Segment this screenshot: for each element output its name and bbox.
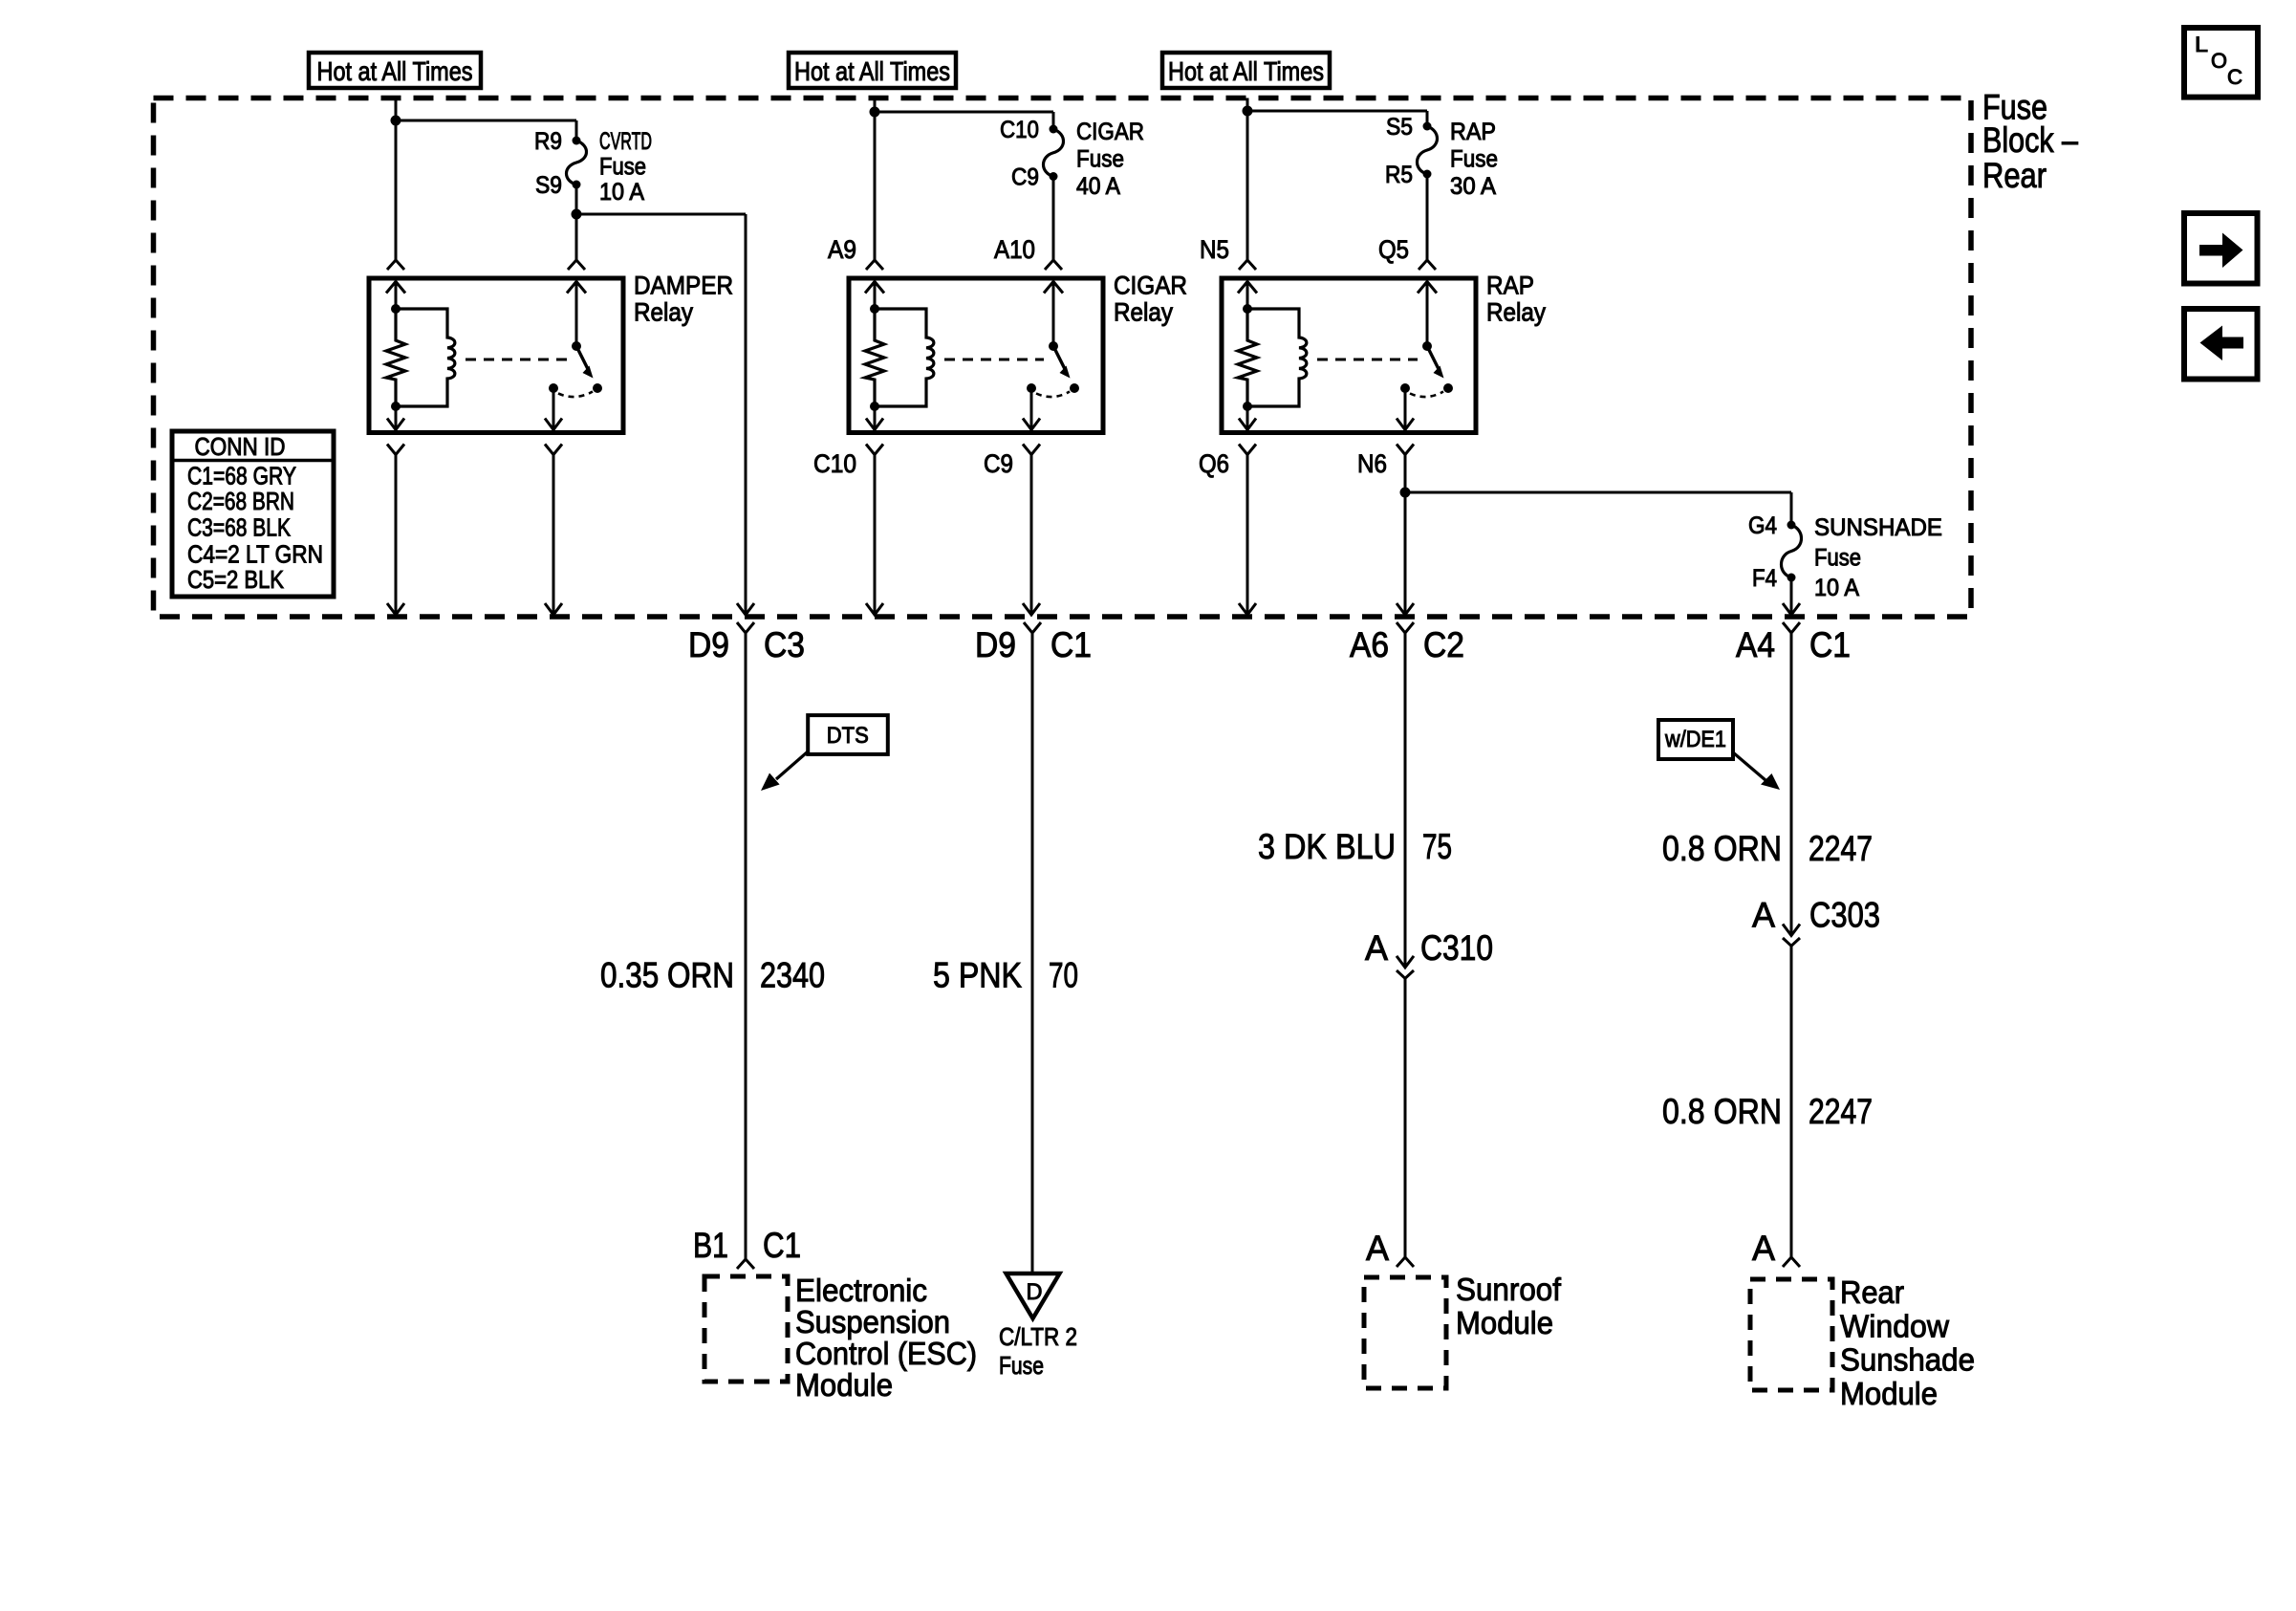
svg-text:DTS: DTS <box>827 723 869 749</box>
CIGAR relay switch travel dashed arc <box>1036 392 1070 398</box>
arrow: CIGAR switch output crosses border <box>1023 603 1040 615</box>
svg-text:70: 70 <box>1049 956 1078 995</box>
RAP relay switch pivot dot <box>1422 341 1432 351</box>
arrow: RAP coil output ends at border <box>1239 603 1256 615</box>
DAMPER relay coil winding <box>396 309 455 406</box>
CIGAR relay switch blade <box>1054 348 1065 369</box>
in-line connector C310 upper arrow <box>1397 956 1414 968</box>
wire: column D9/C1 down to C/LTR 2 fuse <box>1031 633 1034 1274</box>
DAMPER relay actuation dashed link <box>466 359 567 361</box>
triangle-D feed symbol <box>1007 1274 1060 1318</box>
in-line connector C310 lower chevron <box>1397 970 1414 978</box>
DAMPER relay coil top junction dot <box>391 304 401 314</box>
svg-text:B1: B1 <box>693 1226 728 1265</box>
svg-text:A: A <box>1752 896 1775 935</box>
wire: RAP fuse output to relay switch pin <box>1426 174 1429 260</box>
svg-text:30 A: 30 A <box>1450 173 1496 200</box>
arrow: CVRTD column crosses border <box>737 603 754 615</box>
connector chevron below border at x=1080 <box>1024 622 1041 633</box>
DAMPER relay switch pivot dot <box>572 341 581 351</box>
wire: CVRTD fuse output down to junction <box>575 185 578 214</box>
RAP relay coil bottom junction dot <box>1243 402 1252 411</box>
svg-text:Rear: Rear <box>1840 1274 1904 1310</box>
Electronic Suspension Control (ESC) Module dashed box <box>704 1276 788 1382</box>
DAMPER relay switch output arrow (inside bottom) <box>552 388 555 430</box>
svg-text:N5: N5 <box>1200 235 1229 264</box>
svg-text:L: L <box>2195 33 2208 56</box>
svg-text:C/LTR 2: C/LTR 2 <box>999 1322 1077 1351</box>
CIGAR relay coil output arrow (inside bottom) <box>874 406 877 430</box>
svg-text:G4: G4 <box>1748 512 1777 539</box>
RAP relay bottom-left pin chevron <box>1239 445 1256 455</box>
svg-text:Module: Module <box>1456 1305 1553 1340</box>
RAP relay switch blade <box>1428 348 1439 369</box>
svg-text:10 A: 10 A <box>599 179 644 206</box>
wire: CIGAR coil output to border <box>874 455 877 614</box>
RAP relay coil-feed pin arrow (inside top, x=1305) <box>1238 282 1257 294</box>
wire: CIGAR switch output (C9) down <box>1030 455 1033 614</box>
svg-text:A: A <box>1365 928 1388 968</box>
svg-text:Sunroof: Sunroof <box>1456 1272 1562 1307</box>
svg-text:A: A <box>1752 1229 1775 1268</box>
DAMPER relay switch NO contact dot <box>593 383 602 393</box>
wire: DAMPER switch output to border <box>552 455 555 614</box>
svg-text:C1: C1 <box>763 1226 801 1265</box>
svg-text:RAP: RAP <box>1450 119 1496 145</box>
svg-text:DAMPER: DAMPER <box>634 272 733 300</box>
wire: DAMPER coil output to border <box>395 455 398 614</box>
svg-text:F4: F4 <box>1752 565 1777 592</box>
Rear Window Sunshade Module dashed box <box>1750 1279 1832 1390</box>
junction dot on Hot bus 2 <box>870 107 880 118</box>
CIGAR relay coil bottom junction dot <box>870 402 879 411</box>
svg-text:5 PNK: 5 PNK <box>933 956 1022 995</box>
DAMPER relay top-right pin chevron <box>568 260 585 270</box>
svg-text:Q6: Q6 <box>1199 449 1229 478</box>
DAMPER relay bottom-left pin chevron <box>387 445 404 455</box>
DTS callout arrow <box>776 751 808 779</box>
svg-text:0.8 ORN: 0.8 ORN <box>1662 829 1782 868</box>
SUNSHADE fuse element <box>1782 521 1802 582</box>
Rear Window Sunshade module pin chevron <box>1783 1257 1800 1267</box>
svg-text:C10: C10 <box>813 449 856 478</box>
power feed box 'Hot at All Times' #1 <box>309 53 481 88</box>
svg-text:C9: C9 <box>1011 164 1039 191</box>
svg-text:RAP: RAP <box>1486 272 1534 300</box>
back arrow glyph <box>2200 326 2244 361</box>
svg-text:Relay: Relay <box>634 298 693 327</box>
svg-text:Hot at All Times: Hot at All Times <box>317 56 473 86</box>
wire: Hot bus 3 down from dashed border <box>1246 98 1249 261</box>
svg-text:C4=2 LT GRN: C4=2 LT GRN <box>187 540 323 569</box>
CVRTD fuse element <box>567 137 587 189</box>
svg-text:2247: 2247 <box>1809 829 1873 868</box>
CIGAR relay box <box>849 278 1103 433</box>
wire: C310 down to Sunroof module <box>1404 978 1407 1257</box>
svg-text:C3=68 BLK: C3=68 BLK <box>187 512 292 541</box>
svg-text:CVRTD: CVRTD <box>599 128 652 155</box>
wire: branch to CIGAR fuse <box>875 111 1053 114</box>
svg-text:Sunshade: Sunshade <box>1840 1342 1975 1378</box>
DAMPER relay top-left pin chevron <box>387 260 404 270</box>
LOC page-location icon box <box>2184 28 2258 98</box>
svg-text:Module: Module <box>795 1367 893 1403</box>
svg-text:2247: 2247 <box>1809 1092 1873 1131</box>
svg-text:D9: D9 <box>975 625 1016 664</box>
CIGAR relay switch NO contact dot <box>1070 383 1079 393</box>
CIGAR relay top-left pin chevron <box>866 260 883 270</box>
svg-text:Fuse: Fuse <box>1814 545 1861 572</box>
wire: CVRTD branch to column D9/C3 <box>576 213 746 216</box>
forward arrow glyph <box>2199 233 2243 269</box>
svg-text:CIGAR: CIGAR <box>1114 272 1187 300</box>
DAMPER relay bottom-right pin chevron <box>545 445 562 455</box>
svg-text:D9: D9 <box>688 625 729 664</box>
svg-text:A6: A6 <box>1350 625 1389 664</box>
svg-text:Rear: Rear <box>1982 156 2047 195</box>
svg-text:C2: C2 <box>1423 625 1464 664</box>
RAP relay box <box>1222 278 1476 433</box>
svg-text:0.35 ORN: 0.35 ORN <box>600 956 734 995</box>
CIGAR fuse element <box>1044 125 1064 182</box>
RAP relay switch-feed pin arrow (inside top, x=1493) <box>1418 282 1437 294</box>
DAMPER relay box <box>369 278 623 433</box>
wire: branch to RAP fuse <box>1247 110 1427 113</box>
wire: Hot bus 2 down from dashed border <box>874 98 877 261</box>
Sunroof module pin chevron <box>1397 1257 1414 1267</box>
RAP relay switch travel dashed arc <box>1410 392 1443 398</box>
junction dot node N6 branch <box>1400 488 1411 498</box>
svg-text:C10: C10 <box>1000 117 1039 143</box>
svg-text:C2=68 BRN: C2=68 BRN <box>187 487 294 515</box>
arrow: SUNSHADE output crosses border <box>1783 603 1800 615</box>
RAP relay top-left pin chevron <box>1239 260 1256 270</box>
CIGAR relay top-right pin chevron <box>1045 260 1062 270</box>
svg-text:75: 75 <box>1422 827 1452 866</box>
svg-text:C9: C9 <box>984 449 1013 478</box>
connector chevron below border at x=780 <box>737 622 754 633</box>
svg-text:A: A <box>1366 1229 1389 1268</box>
svg-text:C310: C310 <box>1420 928 1493 968</box>
svg-text:C5=2 BLK: C5=2 BLK <box>187 565 285 594</box>
RAP relay actuation dashed link <box>1317 359 1418 361</box>
wire: C303 down to Rear Window Sunshade module <box>1790 946 1793 1257</box>
svg-text:O: O <box>2211 49 2227 73</box>
wire: RAP switch output (N6) down <box>1404 455 1407 614</box>
svg-text:Relay: Relay <box>1486 298 1546 327</box>
CIGAR relay switch pivot dot <box>1049 341 1058 351</box>
power feed box 'Hot at All Times' #2 <box>789 53 956 88</box>
Sunroof Module dashed box <box>1364 1277 1446 1388</box>
forward-arrow navigation box <box>2184 213 2258 284</box>
DAMPER relay switch blade <box>577 348 588 369</box>
svg-text:Electronic: Electronic <box>795 1273 927 1308</box>
wire: CVRTD fuse output to DAMPER relay switch pin <box>575 214 578 260</box>
CIGAR relay actuation dashed link <box>944 359 1044 361</box>
junction dot on Hot bus 1 <box>391 116 401 126</box>
RAP relay coil winding <box>1247 309 1307 406</box>
DTS callout box <box>808 715 888 754</box>
svg-text:3 DK BLU: 3 DK BLU <box>1258 827 1396 866</box>
svg-text:A9: A9 <box>828 235 856 264</box>
svg-text:CONN ID: CONN ID <box>195 432 286 461</box>
svg-text:C1=68 GRY: C1=68 GRY <box>187 462 296 490</box>
svg-text:Relay: Relay <box>1114 298 1173 327</box>
svg-text:S5: S5 <box>1386 114 1413 141</box>
DAMPER relay switch common contact dot <box>549 383 558 393</box>
DAMPER relay coil bottom junction dot <box>391 402 401 411</box>
svg-text:Suspension: Suspension <box>795 1304 950 1339</box>
svg-text:S9: S9 <box>535 172 562 199</box>
svg-text:Module: Module <box>1840 1376 1938 1411</box>
svg-text:Block –: Block – <box>1982 120 2078 160</box>
RAP relay switch common contact dot <box>1400 383 1410 393</box>
DAMPER relay switch travel dashed arc <box>558 392 593 398</box>
RAP relay resistor <box>1238 309 1257 406</box>
svg-text:0.8 ORN: 0.8 ORN <box>1662 1092 1782 1131</box>
CONN ID legend box <box>172 431 334 597</box>
svg-text:Window: Window <box>1840 1308 1949 1343</box>
svg-text:C303: C303 <box>1809 896 1880 935</box>
svg-text:Fuse: Fuse <box>599 154 646 181</box>
wire: column D9/C3 down to ESC module <box>745 633 747 1259</box>
svg-text:Hot at All Times: Hot at All Times <box>1168 56 1324 86</box>
w/DE1 callout box <box>1658 720 1733 759</box>
fuse block - rear dashed boundary box <box>154 98 1972 618</box>
svg-text:2340: 2340 <box>760 956 825 995</box>
junction dot below CVRTD fuse <box>572 209 582 220</box>
power feed box 'Hot at All Times' #3 <box>1162 53 1330 88</box>
RAP relay switch NO contact dot <box>1443 383 1453 393</box>
DAMPER relay resistor <box>386 309 405 406</box>
svg-text:Fuse: Fuse <box>999 1351 1044 1380</box>
svg-text:C1: C1 <box>1809 625 1851 664</box>
svg-text:R5: R5 <box>1385 162 1413 188</box>
CIGAR relay bottom-left pin chevron <box>866 445 883 455</box>
svg-text:C: C <box>2227 65 2242 89</box>
wire: column A4/C1 down to C303 <box>1790 633 1793 935</box>
wire: branch to CVRTD fuse <box>396 120 576 122</box>
svg-text:Control (ESC): Control (ESC) <box>795 1336 977 1371</box>
svg-text:Q5: Q5 <box>1378 235 1409 264</box>
CIGAR relay coil-feed pin arrow (inside top, x=915) <box>865 282 884 294</box>
RAP relay coil output arrow (inside bottom) <box>1246 406 1249 430</box>
svg-text:C3: C3 <box>764 625 805 664</box>
CIGAR relay coil top junction dot <box>870 304 879 314</box>
wire: Hot bus 1 down from dashed border <box>395 98 398 261</box>
svg-text:40 A: 40 A <box>1076 173 1120 200</box>
w/DE1 callout arrow <box>1733 752 1765 780</box>
svg-text:w/DE1: w/DE1 <box>1664 727 1726 752</box>
DAMPER relay coil-feed pin arrow (inside top, x=414) <box>386 282 405 294</box>
CIGAR relay coil winding <box>875 309 934 406</box>
arrow: DAMPER switch output ends at border <box>545 603 562 615</box>
CONN ID header separator <box>172 459 334 463</box>
arrow: DAMPER coil output ends at border <box>387 603 404 615</box>
wire: CIGAR fuse output to relay switch pin <box>1052 177 1055 261</box>
in-line connector C303 upper arrow <box>1783 925 1800 936</box>
RAP fuse element <box>1418 122 1438 179</box>
back-arrow navigation box <box>2184 309 2258 380</box>
in-line connector C303 lower chevron <box>1783 938 1800 946</box>
svg-text:SUNSHADE: SUNSHADE <box>1814 514 1942 541</box>
RAP relay switch output arrow (inside bottom) <box>1404 388 1407 430</box>
connector chevron below border at x=1874 <box>1783 622 1800 633</box>
DAMPER relay switch-feed pin arrow (inside top, x=603) <box>567 282 586 294</box>
svg-text:10 A: 10 A <box>1814 575 1859 601</box>
RAP relay coil top junction dot <box>1243 304 1252 314</box>
CIGAR relay switch output arrow (inside bottom) <box>1030 388 1033 430</box>
wire: N6 branch to SUNSHADE fuse <box>1405 491 1791 494</box>
svg-text:Hot at All Times: Hot at All Times <box>794 56 950 86</box>
svg-text:R9: R9 <box>534 128 562 155</box>
svg-text:Fuse: Fuse <box>1076 146 1124 173</box>
junction dot on Hot bus 3 <box>1243 106 1253 117</box>
svg-text:A10: A10 <box>994 235 1035 264</box>
svg-text:Fuse: Fuse <box>1450 146 1498 173</box>
CIGAR relay resistor <box>865 309 884 406</box>
svg-text:A4: A4 <box>1736 625 1775 664</box>
RAP relay bottom-right pin chevron <box>1397 445 1414 455</box>
arrow: RAP switch output crosses border <box>1397 603 1414 615</box>
svg-text:D: D <box>1027 1279 1043 1305</box>
RAP relay top-right pin chevron <box>1419 260 1436 270</box>
svg-text:C1: C1 <box>1051 625 1092 664</box>
wire: SUNSHADE fuse output to border <box>1790 577 1793 613</box>
ESC module pin chevron <box>737 1259 754 1269</box>
CIGAR relay switch common contact dot <box>1027 383 1036 393</box>
svg-text:N6: N6 <box>1357 449 1387 478</box>
wire: column A6/C2 down to C310 <box>1404 633 1407 967</box>
arrow: CIGAR coil output ends at border <box>866 603 883 615</box>
connector chevron below border at x=1470 <box>1397 622 1414 633</box>
svg-text:CIGAR: CIGAR <box>1076 119 1144 145</box>
CIGAR relay switch-feed pin arrow (inside top, x=1102) <box>1044 282 1063 294</box>
DAMPER relay coil output arrow (inside bottom) <box>395 406 398 430</box>
wire: RAP coil output to border <box>1246 455 1249 614</box>
CIGAR relay bottom-right pin chevron <box>1023 445 1040 455</box>
